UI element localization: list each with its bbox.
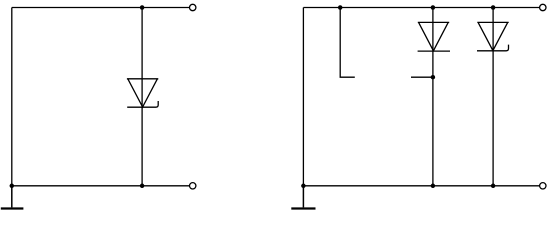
terminal: right circuit top	[540, 4, 546, 10]
ground: right circuit	[291, 186, 315, 209]
diode D2	[418, 22, 450, 51]
wire: right circuit left side	[302, 8, 304, 186]
wire: left circuit bottom rail	[12, 185, 190, 187]
wire: right circuit bottom rail	[303, 185, 539, 187]
node: junction stub top	[338, 5, 343, 10]
terminal: left circuit top	[190, 4, 196, 10]
wire: left circuit left side	[11, 8, 13, 186]
node: junction top of D1 branch	[140, 5, 145, 10]
node: junction bottom-left of left circuit	[10, 184, 15, 189]
terminal: left circuit bottom	[190, 183, 196, 189]
wire: right circuit second branch	[492, 8, 494, 186]
node: junction first branch top	[431, 5, 436, 10]
node: junction first branch bottom	[431, 184, 436, 189]
zener diode D3	[477, 22, 509, 50]
wire: stub from top rail (left gap electrode)	[340, 8, 355, 78]
node: junction bottom-left of right circuit	[301, 184, 306, 189]
node: junction stub to first branch	[431, 75, 436, 80]
terminal: right circuit bottom	[540, 183, 546, 189]
node: junction second branch bottom	[491, 184, 496, 189]
wire: stub to first branch (right gap electrode)	[411, 76, 433, 78]
ground: left circuit	[1, 186, 24, 209]
zener diode D1	[127, 79, 158, 107]
wire: left circuit top rail	[12, 7, 190, 9]
wire: left circuit middle branch	[141, 8, 143, 186]
node: junction second branch top	[491, 5, 496, 10]
wire: right circuit first branch	[432, 8, 434, 186]
node: junction bottom of D1 branch	[140, 184, 145, 189]
wire: right circuit top rail	[303, 7, 539, 9]
